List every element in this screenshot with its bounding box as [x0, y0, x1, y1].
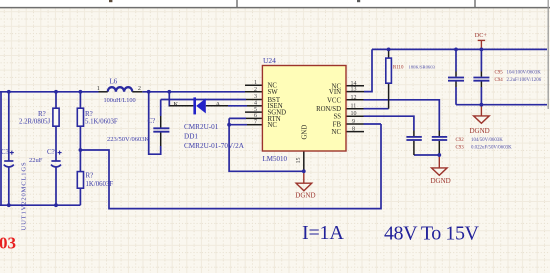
svg-text:R?: R? — [85, 110, 93, 118]
svg-text:NC: NC — [268, 122, 278, 129]
svg-text:10: 10 — [351, 111, 357, 117]
svg-text:R110: R110 — [393, 66, 404, 71]
svg-text:13: 13 — [351, 87, 357, 93]
svg-text:C92: C92 — [456, 138, 465, 143]
svg-text:I=1A: I=1A — [302, 222, 344, 244]
svg-text:K: K — [174, 101, 179, 108]
svg-text:180K/SR0603: 180K/SR0603 — [409, 65, 436, 70]
svg-text:CMR2U-01: CMR2U-01 — [184, 123, 219, 131]
svg-text:48V To 15V: 48V To 15V — [384, 223, 479, 245]
svg-text:SW: SW — [268, 89, 279, 96]
svg-text:104/100V/0603K: 104/100V/0603K — [507, 70, 542, 75]
svg-text:2.2R/0805J: 2.2R/0805J — [19, 118, 51, 125]
svg-text:4: 4 — [254, 101, 257, 107]
svg-text:C95: C95 — [495, 70, 504, 75]
svg-text:C?: C? — [1, 148, 9, 156]
svg-text:C93: C93 — [456, 146, 465, 151]
svg-text:R?: R? — [86, 171, 94, 179]
svg-text:GND: GND — [301, 125, 308, 140]
svg-text:VIN: VIN — [329, 89, 341, 96]
svg-text:R?: R? — [38, 110, 46, 118]
svg-text:U24: U24 — [263, 56, 276, 65]
svg-text:3: 3 — [254, 94, 257, 100]
svg-text:VCC: VCC — [327, 97, 341, 104]
svg-text:22uF: 22uF — [29, 157, 43, 164]
svg-text:2: 2 — [254, 87, 257, 93]
svg-text:2.2uF/100V/1206: 2.2uF/100V/1206 — [507, 78, 542, 83]
svg-text:100uH/L100: 100uH/L100 — [104, 97, 136, 104]
svg-text:C?: C? — [148, 117, 156, 125]
svg-text:223/50V/0603K: 223/50V/0603K — [107, 136, 150, 143]
svg-text:DD1: DD1 — [184, 132, 198, 140]
svg-text:DC+: DC+ — [475, 32, 488, 39]
svg-text:1: 1 — [254, 80, 257, 86]
svg-text:104/50V/0603K: 104/50V/0603K — [471, 138, 503, 143]
svg-text:A: A — [216, 101, 221, 108]
svg-text:5.1K/0603F: 5.1K/0603F — [85, 118, 118, 125]
svg-text:NC: NC — [332, 129, 342, 136]
svg-text:1: 1 — [97, 85, 100, 92]
svg-text:CMR2U-01-70V/2A: CMR2U-01-70V/2A — [184, 142, 245, 150]
svg-text:DGND: DGND — [431, 177, 451, 185]
svg-text:SS: SS — [333, 114, 341, 121]
svg-text:03: 03 — [0, 234, 16, 253]
svg-text:LM5010: LM5010 — [263, 155, 288, 163]
svg-text:7: 7 — [254, 119, 257, 125]
svg-text:1K/0603F: 1K/0603F — [86, 181, 114, 188]
svg-text:RON/SD: RON/SD — [316, 106, 341, 113]
svg-text:C94: C94 — [495, 78, 504, 83]
svg-text:15: 15 — [296, 158, 302, 164]
svg-text:11: 11 — [351, 104, 357, 110]
svg-text:6: 6 — [254, 113, 257, 119]
svg-text:0.022uF/50V/0603K: 0.022uF/50V/0603K — [471, 146, 512, 151]
svg-text:DGND: DGND — [470, 127, 490, 135]
svg-text:12: 12 — [351, 95, 357, 101]
svg-text:C?: C? — [47, 148, 55, 156]
svg-text:FB: FB — [333, 122, 342, 129]
svg-text:UUT1V220MCL1GS: UUT1V220MCL1GS — [21, 162, 28, 231]
svg-text:DGND: DGND — [295, 192, 315, 200]
svg-text:9: 9 — [352, 119, 355, 125]
svg-text:2: 2 — [138, 85, 141, 92]
svg-text:8: 8 — [352, 127, 355, 133]
svg-text:L6: L6 — [110, 77, 118, 85]
svg-text:5: 5 — [254, 107, 257, 113]
